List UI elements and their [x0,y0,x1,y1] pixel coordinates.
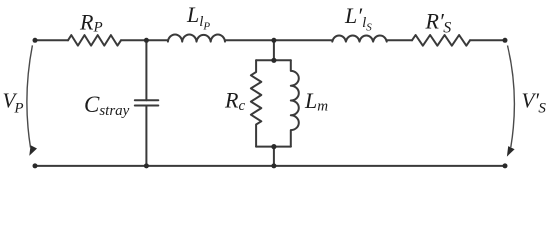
junction dot C branch bottom [144,163,149,168]
arrow arc V_P [27,45,33,147]
resistor R_c vertical [251,60,261,146]
svg-text:Rc: Rc [224,88,245,115]
wire top rail left segment [35,39,68,41]
junction dot parallel box top [271,58,276,63]
arrow arc V'_S [508,46,515,148]
wire parallel box bottom [256,146,291,148]
wire top rail right segment [470,39,505,41]
svg-text:V′S: V′S [522,89,547,117]
inductor L_lP [168,34,225,41]
node dot bottom-right [503,163,508,168]
wire between R_P and C junction [121,39,168,41]
wire C_stray branch lower [145,106,147,166]
wire between L'_lS and R'_S [387,39,412,41]
junction dot C branch top [144,38,149,43]
wire parallel box top [256,59,291,61]
wire C_stray branch upper [145,40,147,100]
svg-text:R′S: R′S [425,8,452,36]
arrowhead V'_S [507,146,515,157]
junction dot shunt top rail [271,38,276,43]
wire bottom rail [35,165,505,167]
wire shunt branch lower [273,147,275,166]
capacitor C_stray plates [135,100,159,105]
node dot top-left [33,38,38,43]
wire between L_lP and shunt junction [225,39,332,41]
svg-text:Lm: Lm [304,88,328,115]
svg-text:L′lS: L′lS [344,3,372,34]
inductor L'_lS [332,35,386,41]
inductor L_m vertical [291,60,299,146]
resistor R'_S [412,35,470,46]
svg-text:Cstray: Cstray [84,92,130,119]
junction dot parallel box bottom [271,144,276,149]
junction dot shunt bottom rail [271,163,276,168]
node dot top-right [503,38,508,43]
svg-text:RP: RP [79,9,103,35]
arrowhead V_P [29,145,37,156]
node dot bottom-left [33,163,38,168]
wire shunt branch upper [273,40,275,60]
svg-text:VP: VP [3,89,24,117]
resistor R_P [68,35,121,46]
svg-text:LlP: LlP [186,2,210,33]
